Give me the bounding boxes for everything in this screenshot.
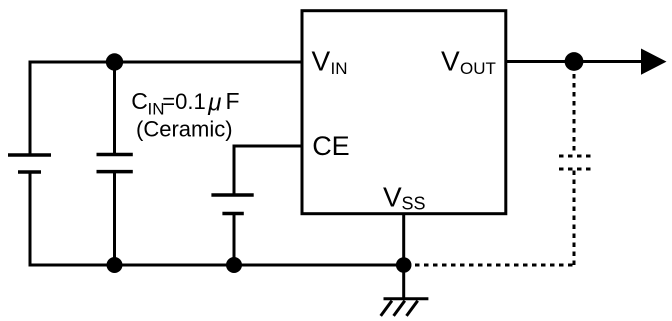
svg-text:=0.1: =0.1 [162, 89, 205, 114]
svg-text:CE: CE [312, 131, 350, 161]
svg-text:V: V [383, 181, 402, 212]
svg-text:V: V [312, 46, 331, 77]
svg-text:μ: μ [207, 90, 221, 117]
svg-text:C: C [131, 88, 148, 114]
svg-text:SS: SS [402, 194, 426, 214]
svg-text:F: F [226, 88, 240, 114]
svg-text:(Ceramic): (Ceramic) [136, 117, 233, 142]
svg-text:OUT: OUT [460, 59, 496, 78]
svg-text:V: V [441, 46, 460, 77]
svg-text:IN: IN [331, 59, 348, 78]
